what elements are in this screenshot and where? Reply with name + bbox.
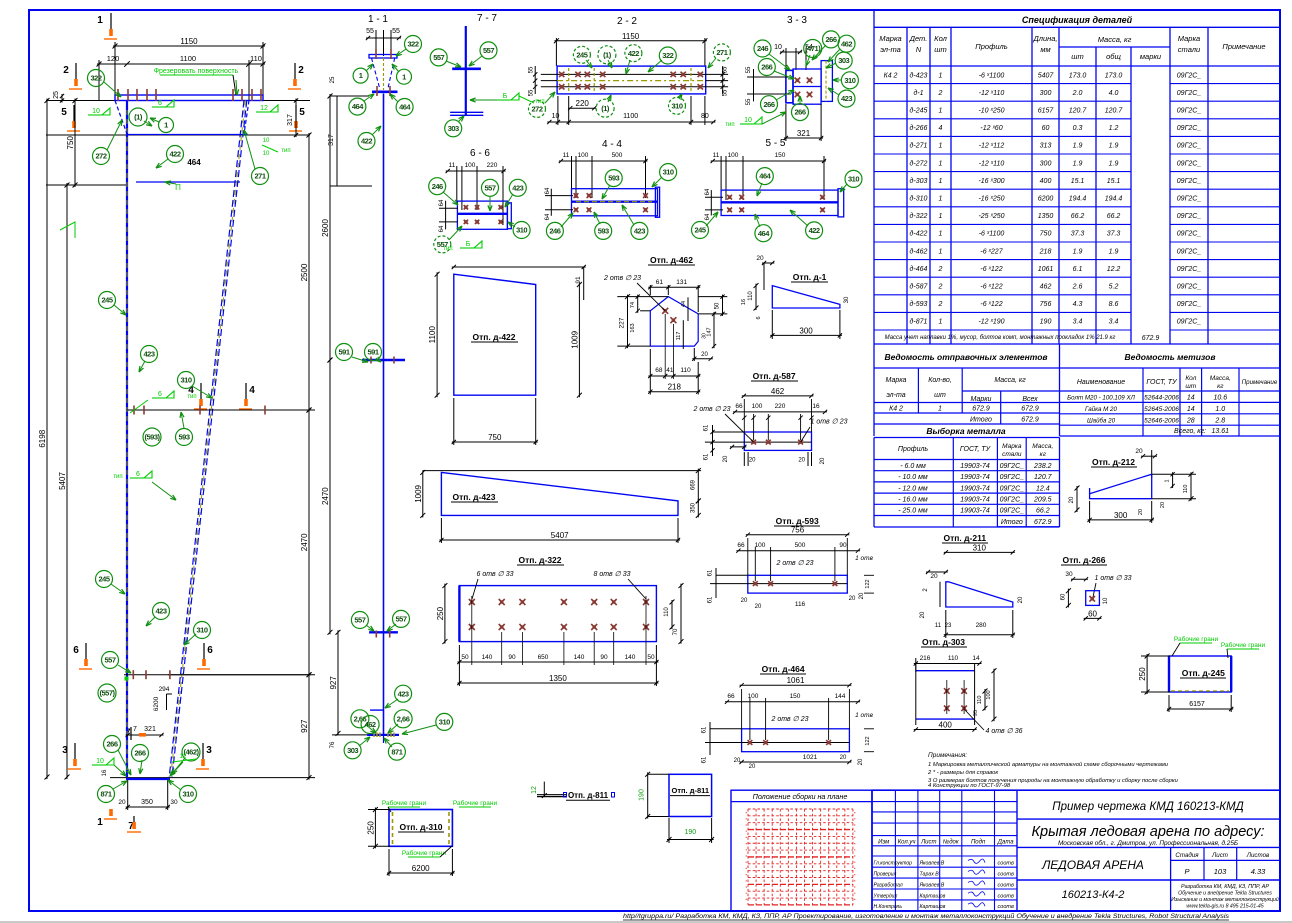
svg-text:(1): (1) [134, 113, 143, 122]
svg-text:55: 55 [746, 66, 752, 73]
svg-text:20: 20 [749, 458, 756, 464]
section 1-1 splice flanges [362, 359, 405, 361]
svg-text:-12 ˣ112: -12 ˣ112 [979, 143, 1005, 150]
svg-text:140: 140 [625, 654, 636, 661]
section 1-1 base [370, 709, 383, 711]
svg-text:Кол.уч: Кол.уч [898, 840, 916, 846]
svg-text:557: 557 [395, 615, 406, 624]
svg-text:Отп. д-811: Отп. д-811 [568, 791, 609, 800]
svg-text:6: 6 [158, 391, 162, 398]
svg-text:тип: тип [725, 122, 734, 128]
svg-text:Московская обл., г. Дмитров, у: Московская обл., г. Дмитров, ул. Професс… [1058, 839, 1238, 847]
svg-text:д-245: д-245 [910, 107, 928, 115]
vedomost otpravochnyh elementov [873, 344, 875, 436]
svg-text:8 отв ∅ 33: 8 отв ∅ 33 [594, 571, 631, 578]
svg-text:464: 464 [759, 172, 771, 181]
svg-text:55: 55 [746, 98, 752, 105]
svg-text:09Г2С_: 09Г2С_ [1177, 248, 1202, 255]
svg-text:09Г2С_: 09Г2С_ [1177, 319, 1202, 326]
svg-text:44: 44 [681, 301, 687, 307]
svg-text:Рабочие грани: Рабочие грани [382, 799, 427, 807]
svg-text:д-422: д-422 [910, 230, 928, 238]
svg-text:19903-74: 19903-74 [960, 474, 990, 481]
svg-text:672.9: 672.9 [1142, 335, 1160, 342]
svg-text:140: 140 [574, 654, 585, 661]
svg-text:110: 110 [1183, 485, 1189, 494]
svg-text:- 25.0 мм: - 25.0 мм [898, 508, 928, 515]
svg-text:Итого: Итого [1001, 519, 1023, 526]
svg-text:100: 100 [728, 152, 739, 159]
svg-text:557: 557 [433, 53, 444, 62]
svg-text:216: 216 [920, 655, 931, 662]
svg-text:- 12.0 мм: - 12.0 мм [898, 485, 928, 492]
svg-text:Масса, кг: Масса, кг [1098, 35, 1132, 44]
svg-text:266: 266 [763, 100, 774, 109]
svg-text:74: 74 [630, 302, 636, 308]
svg-text:тип: тип [113, 474, 122, 480]
svg-text:462: 462 [771, 387, 785, 396]
svg-text:09Г2С_: 09Г2С_ [1177, 301, 1202, 308]
svg-text:Разработка КМ, КМД, КЗ, ППР, А: Разработка КМ, КМД, КЗ, ППР, АР [1181, 884, 1269, 890]
left elevation: weld marks green [88, 114, 102, 116]
svg-text:1.0: 1.0 [1215, 406, 1225, 413]
svg-text:соотв: соотв [998, 904, 1014, 910]
svg-text:464: 464 [187, 158, 201, 167]
left elevation: right-side dims [263, 100, 310, 102]
svg-text:423: 423 [512, 183, 523, 192]
svg-text:тип: тип [281, 148, 290, 154]
svg-text:20: 20 [723, 455, 729, 462]
svg-text:672.9: 672.9 [1034, 519, 1052, 526]
svg-text:303: 303 [838, 56, 849, 65]
svg-text:Выборка металла: Выборка металла [926, 426, 1006, 436]
svg-text:8.6: 8.6 [1109, 301, 1119, 308]
svg-text:52646-2006: 52646-2006 [1144, 417, 1179, 424]
section 1-1 shaft line [383, 94, 385, 735]
svg-text:300: 300 [1040, 160, 1052, 167]
svg-text:220: 220 [775, 403, 786, 410]
svg-text:6.1: 6.1 [1073, 266, 1083, 273]
svg-text:1009: 1009 [570, 330, 579, 348]
svg-text:52645-2006: 52645-2006 [1144, 406, 1179, 413]
svg-text:2: 2 [63, 65, 69, 76]
svg-text:310: 310 [848, 175, 859, 184]
svg-text:11: 11 [935, 623, 942, 629]
svg-text:Примечания:: Примечания: [928, 752, 967, 759]
svg-text:557: 557 [354, 616, 365, 625]
svg-text:30: 30 [702, 333, 708, 339]
svg-text:313: 313 [1040, 143, 1052, 150]
svg-text:131: 131 [676, 279, 687, 286]
svg-text:55: 55 [723, 89, 729, 96]
svg-text:Положение сборки на плане: Положение сборки на плане [753, 792, 848, 801]
svg-text:61: 61 [702, 756, 708, 763]
svg-text:09Г2С_: 09Г2С_ [1177, 196, 1202, 203]
svg-text:423: 423 [143, 350, 154, 359]
svg-text:55: 55 [529, 66, 535, 73]
svg-text:350: 350 [691, 502, 697, 513]
svg-text:20: 20 [749, 764, 756, 770]
svg-text:09Г2С_: 09Г2С_ [1177, 90, 1202, 97]
svg-text:110: 110 [748, 291, 754, 301]
svg-text:322: 322 [90, 74, 101, 83]
svg-text:6 отв ∅ 33: 6 отв ∅ 33 [477, 571, 514, 578]
svg-text:190: 190 [639, 789, 646, 801]
svg-text:-12 ˣ60: -12 ˣ60 [980, 125, 1002, 132]
svg-text:(471): (471) [805, 44, 821, 53]
svg-text:стали: стали [1002, 451, 1022, 458]
svg-text:190: 190 [1040, 319, 1052, 326]
section 1-1 lower flange [369, 631, 398, 633]
svg-text:266: 266 [761, 63, 772, 72]
svg-text:100: 100 [986, 690, 992, 699]
svg-text:64: 64 [705, 188, 711, 195]
svg-text:423: 423 [634, 227, 645, 236]
svg-text:20: 20 [701, 352, 708, 358]
svg-text:http//tgruppa.ru/ Разработка: http//tgruppa.ru/ Разработка КМ, КМД, КЗ… [623, 913, 1229, 920]
svg-text:1: 1 [402, 72, 406, 81]
svg-text:19903-74: 19903-74 [960, 463, 990, 470]
svg-text:100: 100 [578, 152, 589, 159]
svg-text:10: 10 [744, 117, 752, 124]
svg-text:09Г2С_: 09Г2С_ [1177, 178, 1202, 185]
svg-text:Рабочие грани: Рабочие грани [1174, 635, 1219, 643]
svg-text:Марка: Марка [1178, 34, 1200, 43]
svg-text:927: 927 [329, 676, 338, 690]
svg-text:2: 2 [938, 301, 943, 308]
svg-text:общ: общ [1106, 52, 1121, 61]
svg-text:2: 2 [938, 90, 943, 97]
svg-text:1.9: 1.9 [1073, 143, 1083, 150]
svg-text:Лист: Лист [1211, 852, 1228, 859]
svg-text:150: 150 [790, 693, 801, 700]
svg-text:д-1: д-1 [913, 89, 923, 97]
svg-text:Отп. д-303: Отп. д-303 [922, 637, 965, 647]
svg-text:50: 50 [715, 302, 721, 309]
detail d-245 [1169, 656, 1231, 692]
svg-text:Итого: Итого [970, 417, 992, 424]
svg-text:7: 7 [133, 726, 137, 733]
svg-text:50: 50 [647, 654, 655, 661]
svg-text:61: 61 [702, 726, 708, 733]
svg-text:90: 90 [600, 654, 608, 661]
svg-text:кг: кг [1040, 451, 1047, 458]
svg-text:557: 557 [483, 46, 494, 55]
svg-text:20: 20 [1018, 596, 1024, 603]
svg-text:163: 163 [630, 323, 636, 332]
svg-text:12.4: 12.4 [1036, 485, 1050, 492]
svg-text:2 отв ∅ 23: 2 отв ∅ 23 [603, 275, 641, 282]
svg-text:10.6: 10.6 [1213, 395, 1227, 402]
svg-text:322: 322 [662, 51, 673, 60]
svg-text:09Г2С_: 09Г2С_ [1177, 231, 1202, 238]
svg-text:52644-2006: 52644-2006 [1144, 395, 1179, 402]
svg-text:66: 66 [735, 403, 743, 410]
svg-text:Спецификация деталей: Спецификация деталей [1022, 15, 1133, 25]
svg-text:2.6: 2.6 [1072, 284, 1083, 291]
svg-text:220: 220 [576, 99, 590, 108]
svg-text:соотв: соотв [998, 883, 1014, 889]
svg-text:37.3: 37.3 [1107, 231, 1121, 238]
svg-text:№док: №док [943, 839, 960, 846]
section 1-1 left dims [336, 96, 338, 186]
svg-text:Примечание: Примечание [1222, 42, 1265, 51]
svg-text:Пример чертежа КМД 160213-КМД: Пример чертежа КМД 160213-КМД [1052, 801, 1243, 813]
svg-text:09Г2С_: 09Г2С_ [1000, 497, 1025, 504]
svg-text:64: 64 [439, 199, 445, 206]
svg-text:19903-74: 19903-74 [960, 497, 990, 504]
svg-text:Масса, кг: Масса, кг [994, 377, 1026, 384]
svg-text:соотв: соотв [998, 872, 1014, 878]
svg-text:464: 464 [399, 103, 411, 112]
svg-text:09Г2С_: 09Г2С_ [1000, 463, 1025, 470]
svg-text:5: 5 [299, 107, 305, 118]
svg-text:20: 20 [1135, 448, 1143, 455]
svg-text:1100: 1100 [180, 54, 196, 63]
svg-text:14: 14 [972, 655, 980, 662]
svg-text:422: 422 [169, 150, 180, 159]
svg-text:6: 6 [136, 471, 140, 478]
svg-text:20: 20 [1138, 509, 1144, 515]
svg-text:1: 1 [939, 108, 943, 115]
svg-text:245: 245 [576, 50, 587, 59]
svg-text:120.7: 120.7 [1105, 108, 1124, 115]
svg-text:4 - 4: 4 - 4 [602, 139, 622, 150]
svg-text:стали: стали [1178, 45, 1201, 54]
svg-text:-12 ˣ190: -12 ˣ190 [978, 319, 1004, 326]
svg-text:соотв: соотв [998, 893, 1014, 899]
svg-text:246: 246 [757, 44, 768, 53]
svg-text:1: 1 [164, 121, 168, 130]
svg-text:462: 462 [1040, 284, 1052, 291]
left elevation: splice line [127, 409, 310, 411]
svg-text:1: 1 [939, 160, 943, 167]
svg-text:1021: 1021 [803, 754, 818, 761]
svg-text:2: 2 [938, 284, 943, 291]
svg-text:09Г2С_: 09Г2С_ [1000, 508, 1025, 515]
svg-text:д-272: д-272 [910, 159, 928, 167]
svg-text:2470: 2470 [300, 533, 309, 551]
svg-text:4 Конструкции по ГОСТ-97-98: 4 Конструкции по ГОСТ-97-98 [928, 783, 1011, 789]
svg-text:2: 2 [298, 65, 304, 76]
svg-text:Отп. д-212: Отп. д-212 [1092, 457, 1135, 467]
svg-text:10: 10 [96, 758, 104, 765]
svg-text:1.9: 1.9 [1109, 248, 1119, 255]
svg-text:3 - 3: 3 - 3 [787, 15, 807, 26]
svg-text:д-303: д-303 [910, 177, 928, 185]
svg-text:5: 5 [61, 107, 67, 118]
svg-text:Примечание: Примечание [1242, 379, 1278, 386]
svg-text:12: 12 [531, 786, 538, 794]
svg-text:310: 310 [439, 718, 450, 727]
svg-text:(1): (1) [603, 50, 612, 59]
svg-text:1: 1 [939, 213, 943, 220]
svg-text:37.3: 37.3 [1071, 231, 1085, 238]
svg-text:Б: Б [466, 241, 471, 248]
svg-text:5407: 5407 [1038, 72, 1055, 79]
svg-text:300: 300 [799, 326, 813, 335]
svg-text:462: 462 [841, 39, 852, 48]
svg-text:400: 400 [1040, 178, 1052, 185]
svg-text:19903-74: 19903-74 [960, 508, 990, 515]
svg-text:1100: 1100 [428, 326, 437, 344]
svg-text:669: 669 [691, 479, 697, 490]
svg-text:ЛЕДОВАЯ АРЕНА: ЛЕДОВАЯ АРЕНА [1041, 858, 1144, 872]
svg-text:116: 116 [795, 601, 806, 608]
svg-text:110: 110 [948, 655, 959, 662]
svg-text:09Г2С_: 09Г2С_ [1177, 160, 1202, 167]
svg-text:-6 ˣ1100: -6 ˣ1100 [979, 231, 1005, 238]
svg-text:Отп. д-310: Отп. д-310 [399, 822, 442, 832]
svg-text:173.0: 173.0 [1069, 72, 1087, 79]
svg-text:(1): (1) [601, 104, 610, 113]
svg-text:100: 100 [752, 403, 763, 410]
svg-text:1: 1 [97, 817, 103, 828]
svg-text:11: 11 [449, 162, 456, 169]
svg-text:д-310: д-310 [910, 195, 928, 203]
svg-text:2600: 2600 [321, 219, 330, 237]
svg-text:Изм: Изм [878, 840, 889, 846]
svg-text:Б: Б [503, 93, 508, 100]
svg-text:927: 927 [300, 719, 309, 733]
svg-text:756: 756 [791, 526, 805, 535]
svg-text:Фрезеровать поверхность: Фрезеровать поверхность [154, 68, 239, 75]
svg-text:Обучение и внедрение Tekla Str: Обучение и внедрение Tekla Structures [1178, 891, 1272, 897]
svg-text:11: 11 [563, 152, 570, 159]
svg-text:10: 10 [774, 44, 782, 51]
svg-text:6: 6 [207, 645, 213, 656]
svg-text:110: 110 [977, 696, 983, 705]
svg-text:Утвердил: Утвердил [874, 893, 898, 899]
svg-text:464: 464 [352, 102, 364, 111]
svg-text:1.2: 1.2 [1109, 125, 1119, 132]
svg-text:462: 462 [365, 720, 376, 729]
svg-text:шт: шт [934, 45, 946, 54]
svg-text:25: 25 [53, 91, 60, 99]
svg-text:д-322: д-322 [910, 212, 928, 220]
svg-text:2.8: 2.8 [1214, 417, 1225, 424]
svg-text:Отп. д-211: Отп. д-211 [944, 533, 987, 543]
svg-text:д-464: д-464 [910, 265, 928, 273]
svg-text:тип: тип [187, 394, 196, 400]
svg-text:Отп. д-1: Отп. д-1 [793, 272, 827, 282]
svg-text:245: 245 [694, 226, 705, 235]
svg-text:1 отв: 1 отв [855, 555, 873, 562]
svg-text:66.2: 66.2 [1107, 213, 1121, 220]
svg-text:140: 140 [482, 654, 493, 661]
section 1-1 head [369, 55, 397, 59]
svg-text:Гл.конструктор: Гл.конструктор [874, 861, 913, 867]
svg-text:20: 20 [849, 596, 856, 602]
svg-text:д-593: д-593 [910, 300, 928, 308]
svg-text:756: 756 [1040, 301, 1052, 308]
svg-text:шт: шт [1185, 383, 1196, 390]
svg-text:1: 1 [939, 143, 943, 150]
svg-text:Отп. д-266: Отп. д-266 [1062, 555, 1105, 565]
svg-text:Рабочие грани: Рабочие грани [1221, 641, 1266, 649]
section 1-1 top dims [366, 37, 401, 39]
svg-text:250: 250 [1138, 667, 1147, 681]
svg-text:Отп. д-322: Отп. д-322 [518, 555, 561, 565]
svg-text:1061: 1061 [1038, 266, 1054, 273]
svg-text:500: 500 [795, 542, 806, 549]
svg-text:55: 55 [366, 28, 374, 35]
detail d-310 [389, 810, 452, 847]
svg-text:672.9: 672.9 [1021, 406, 1039, 413]
svg-text:09Г2С_: 09Г2С_ [1177, 108, 1202, 115]
svg-text:09Г2С_: 09Г2С_ [1177, 266, 1202, 273]
svg-text:110: 110 [664, 607, 670, 617]
svg-text:Марка: Марка [879, 34, 901, 43]
svg-text:-16 ˣ300: -16 ˣ300 [978, 178, 1004, 185]
svg-text:19903-74: 19903-74 [960, 485, 990, 492]
svg-text:272: 272 [531, 105, 542, 114]
svg-text:6157: 6157 [1189, 701, 1205, 708]
svg-text:Марка: Марка [886, 377, 907, 384]
svg-text:-6 ˣ122: -6 ˣ122 [980, 284, 1002, 291]
svg-text:28: 28 [1186, 417, 1195, 424]
svg-text:4: 4 [249, 385, 255, 396]
svg-text:423: 423 [398, 689, 409, 698]
svg-text:280: 280 [976, 622, 987, 629]
svg-text:1: 1 [938, 406, 942, 413]
svg-text:423: 423 [155, 607, 166, 616]
svg-text:1: 1 [939, 319, 943, 326]
svg-text:4.0: 4.0 [1109, 90, 1119, 97]
left elevation: top plate d-322 [115, 95, 263, 101]
svg-text:д-871: д-871 [910, 318, 928, 326]
svg-text:120: 120 [107, 54, 120, 63]
svg-text:Карташов: Карташов [920, 904, 946, 910]
svg-text:100: 100 [755, 542, 766, 549]
svg-text:10: 10 [263, 138, 270, 144]
svg-text:266: 266 [794, 108, 805, 117]
svg-text:Отп. д-462: Отп. д-462 [650, 255, 693, 265]
svg-text:464: 464 [758, 229, 770, 238]
svg-text:173.0: 173.0 [1105, 72, 1123, 79]
svg-text:1061: 1061 [787, 676, 805, 685]
svg-text:61: 61 [708, 596, 714, 603]
svg-text:09Г2С_: 09Г2С_ [1000, 474, 1025, 481]
svg-text:20: 20 [930, 573, 938, 580]
svg-text:(593): (593) [144, 433, 160, 442]
svg-text:эл-та: эл-та [886, 392, 905, 399]
svg-text:220: 220 [487, 162, 498, 169]
red grid [747, 809, 749, 905]
svg-text:Крытая ледовая арена по адресу: Крытая ледовая арена по адресу: [1031, 824, 1264, 840]
svg-text:Масса,: Масса, [1032, 443, 1053, 450]
svg-text:6: 6 [158, 100, 162, 107]
svg-text:66: 66 [737, 542, 745, 549]
svg-text:Кол-во,: Кол-во, [928, 377, 952, 384]
svg-text:50: 50 [461, 654, 469, 661]
svg-text:4.33: 4.33 [1251, 867, 1266, 876]
svg-text:6200: 6200 [153, 696, 160, 711]
svg-text:30: 30 [844, 296, 850, 303]
svg-text:Рабочие грани: Рабочие грани [402, 849, 447, 857]
svg-text:110: 110 [680, 367, 691, 374]
svg-text:ГОСТ, ТУ: ГОСТ, ТУ [960, 446, 992, 453]
svg-text:Отп. д-464: Отп. д-464 [762, 664, 805, 674]
svg-text:6 - 6: 6 - 6 [470, 148, 490, 159]
svg-text:591: 591 [367, 348, 378, 357]
svg-text:Ведомость метизов: Ведомость метизов [1125, 352, 1216, 362]
svg-text:6: 6 [73, 645, 79, 656]
svg-text:1: 1 [1165, 479, 1171, 482]
svg-text:д-587: д-587 [910, 283, 929, 291]
svg-text:227: 227 [619, 317, 626, 328]
svg-text:4: 4 [939, 125, 943, 132]
